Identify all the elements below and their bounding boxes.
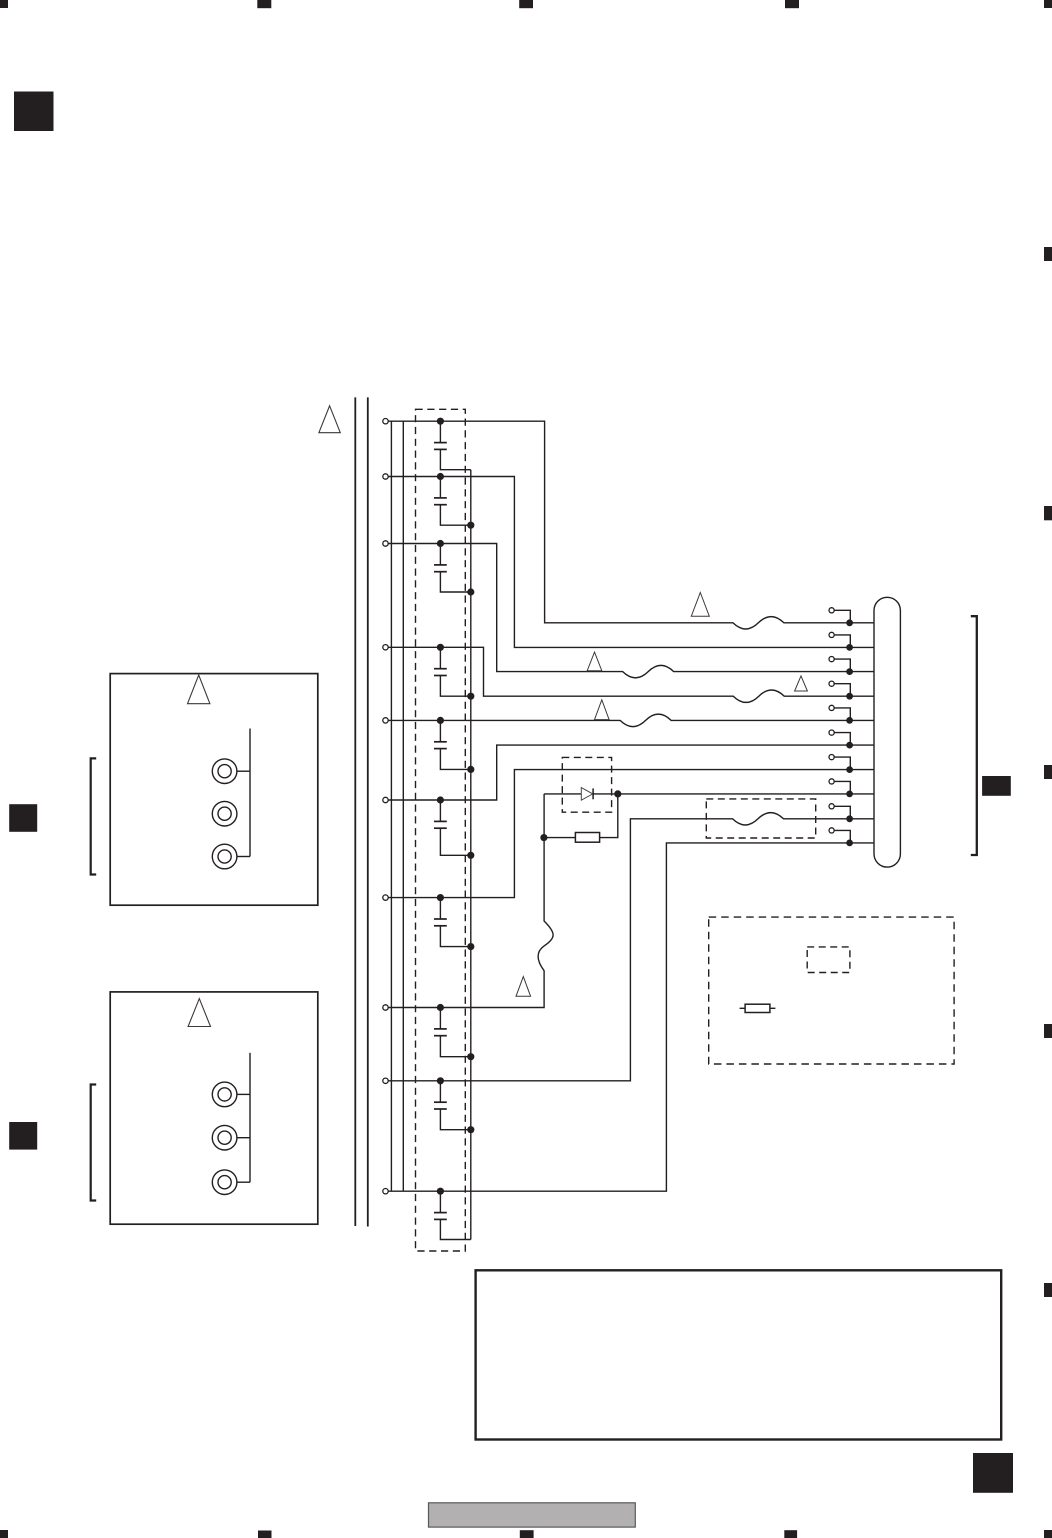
wire: jack tick in speaker block B xyxy=(237,1093,250,1095)
jack terminal 1 of speaker block B xyxy=(212,1082,237,1107)
connector CN1 pin 4 xyxy=(829,681,853,699)
wire: T1 to CN pin1 (with crossover bump) xyxy=(388,421,874,629)
wire: R1 to T8 riser node xyxy=(544,837,576,839)
wire: T4 to CN pin4 (with crossover bump) xyxy=(388,647,874,702)
warning triangle on wire to pin3 xyxy=(587,652,602,671)
junction: C3 top node xyxy=(437,540,444,547)
warning triangle (top, near transformer) xyxy=(319,406,340,433)
wire: tap bus vertical A xyxy=(390,421,392,1191)
wire: D1 cathode to CN pin8 xyxy=(593,793,874,795)
wire: jack tick in speaker block A xyxy=(237,770,250,772)
jack terminal 2 of speaker block B xyxy=(212,1125,237,1150)
terminal pin 5 of transformer xyxy=(383,718,388,723)
junction: C7 top node xyxy=(437,894,444,901)
connector CN1 pin 9 xyxy=(829,804,853,822)
terminal pin 10 of transformer xyxy=(383,1189,388,1194)
capacitor C1 xyxy=(434,421,471,470)
wire: T8 riser with crossover bump to D1/R1 node xyxy=(388,794,553,1008)
terminal pin 1 of transformer xyxy=(383,419,388,424)
junction: C5 top node xyxy=(437,717,444,724)
junction: C4 to ground bus xyxy=(467,693,474,700)
junction: D1 cathode / pin8 node xyxy=(614,790,621,797)
grey footer bar xyxy=(429,1503,636,1527)
connector CN1 pin 7 xyxy=(829,755,853,773)
warning triangle on T8 riser xyxy=(516,977,531,997)
wire: jack tick in speaker block B xyxy=(237,1137,250,1139)
connector CN1 pin 8 xyxy=(829,779,853,797)
capacitor C9 xyxy=(434,1081,471,1130)
junction: C7 to ground bus xyxy=(467,943,474,950)
junction: C4 top node xyxy=(437,644,444,651)
connector CN1 body xyxy=(874,597,900,867)
capacitor C10 xyxy=(434,1191,471,1239)
connector CN1 pin 1 xyxy=(829,608,853,626)
capacitor C3 xyxy=(434,544,471,593)
optional circuit block (large dashed outline) xyxy=(709,917,954,1064)
connector CN1 pin 2 xyxy=(829,632,853,650)
junction: C5 to ground bus xyxy=(467,766,474,773)
note box (bottom) xyxy=(476,1270,1002,1439)
wire: speaker block B common line xyxy=(249,1053,251,1182)
bracket grouping speaker block A jacks xyxy=(91,758,97,874)
junction: C10 top node xyxy=(437,1188,444,1195)
terminal pin 8 of transformer xyxy=(383,1005,388,1010)
connector CN1 pin 3 xyxy=(829,657,853,675)
component placeholder (small dashed outline) xyxy=(807,947,850,973)
wire: T5 to CN pin5 (with crossover bump) xyxy=(388,714,874,726)
junction: C8 top node xyxy=(437,1004,444,1011)
resistor R1 xyxy=(575,833,599,843)
junction: C2 to ground bus xyxy=(467,522,474,529)
connector CN1 pin 6 xyxy=(829,730,853,748)
junction: C9 top node xyxy=(437,1077,444,1084)
jack terminal 2 of speaker block A xyxy=(212,801,237,826)
dashed outline around pin9 crossover xyxy=(706,799,815,838)
junction: C1 top node xyxy=(437,418,444,425)
jack terminal 3 of speaker block A xyxy=(212,844,237,869)
dashed outline around D1 xyxy=(562,757,611,812)
warning triangle in speaker block A xyxy=(188,675,210,704)
capacitor C6 xyxy=(434,800,471,855)
speaker block B box outline xyxy=(110,992,318,1224)
capacitor C5 xyxy=(434,720,471,769)
warning triangle on wire to pin4 xyxy=(795,676,808,691)
capacitor C7 xyxy=(434,898,471,947)
wire: T2 to CN pin2 xyxy=(388,477,874,648)
jack terminal 1 of speaker block A xyxy=(212,759,237,784)
junction: C6 top node xyxy=(437,796,444,803)
junction: R1 left / T8 riser node xyxy=(540,834,547,841)
wire: D1 anode from T8 riser xyxy=(544,793,581,795)
diode D1 xyxy=(581,788,593,801)
terminal pin 4 of transformer xyxy=(383,645,388,650)
connector CN1 pin 10 xyxy=(829,828,853,846)
terminal pin 6 of transformer xyxy=(383,797,388,802)
wire: pin8 node down to resistor R1 xyxy=(600,794,618,838)
resistor R2 (inside dashed block) xyxy=(740,1004,776,1012)
wire: T3 to CN pin3 (with crossover bump) xyxy=(388,544,874,678)
capacitor C8 xyxy=(434,1008,471,1057)
junction: C9 to ground bus xyxy=(467,1126,474,1133)
transformer core double line xyxy=(355,397,368,1226)
wire: jack tick in speaker block B xyxy=(237,1181,250,1183)
warning triangle on wire to pin5 xyxy=(595,700,610,720)
connector CN1 pin 5 xyxy=(829,705,853,723)
capacitor C2 xyxy=(434,477,471,526)
wire: tap bus vertical B xyxy=(402,421,404,1191)
wire: T9 to CN pin9 (with crossover bump) xyxy=(388,813,874,1081)
bracket grouping speaker block B jacks xyxy=(91,1085,97,1201)
wire: T6 to CN pin6 xyxy=(388,745,874,800)
junction: C8 to ground bus xyxy=(467,1053,474,1060)
terminal pin 7 of transformer xyxy=(383,895,388,900)
junction: C3 to ground bus xyxy=(467,588,474,595)
jack terminal 3 of speaker block B xyxy=(212,1170,237,1195)
warning triangle in speaker block B xyxy=(188,999,210,1027)
speaker block A box outline xyxy=(110,674,318,906)
wire: T10 to CN pin10 xyxy=(388,843,874,1191)
wire: jack tick in speaker block A xyxy=(237,856,250,858)
capacitor block C101 (dashed outline) xyxy=(416,409,466,1251)
capacitor C4 xyxy=(434,647,471,696)
warning triangle on wire to pin1 xyxy=(691,593,709,617)
terminal pin 2 of transformer xyxy=(383,474,388,479)
wire: speaker block A common line xyxy=(249,729,251,857)
terminal pin 9 of transformer xyxy=(383,1078,388,1083)
terminal pin 3 of transformer xyxy=(383,541,388,546)
junction: C6 to ground bus xyxy=(467,852,474,859)
wire: capacitor ground bus xyxy=(470,470,472,1240)
wire: T7 to CN pin7 xyxy=(388,770,874,898)
bracket grouping connector pins xyxy=(971,616,977,855)
junction: C2 top node xyxy=(437,473,444,480)
